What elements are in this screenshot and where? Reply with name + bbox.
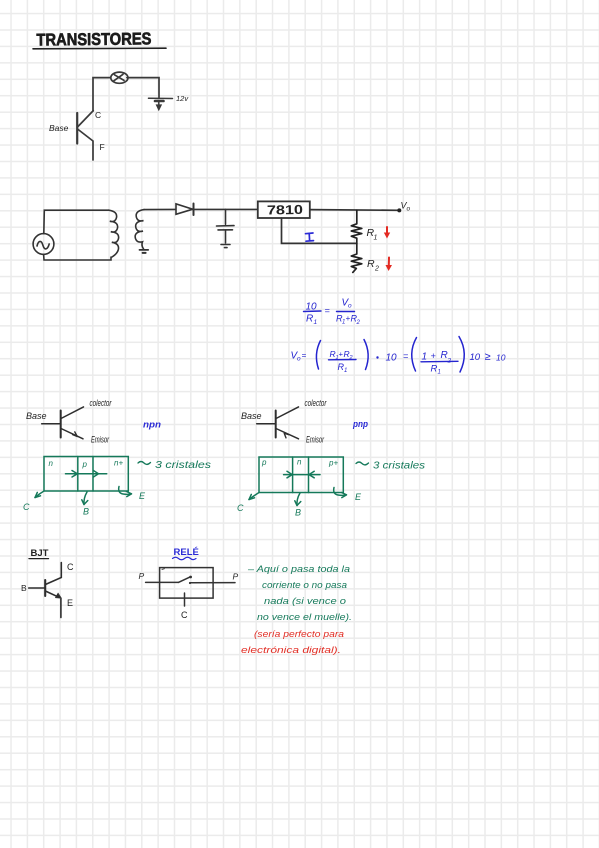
wire secondary to diode	[144, 208, 176, 210]
arrow B npn	[82, 492, 88, 505]
transformer primary coil	[109, 210, 119, 257]
svg-text:P: P	[139, 571, 145, 581]
svg-text:p: p	[82, 460, 88, 469]
current arrow red R1	[384, 227, 390, 239]
labels n p n+	[49, 459, 124, 470]
relay switch arm	[178, 576, 192, 585]
arrow C npn	[35, 491, 44, 498]
svg-text:1: 1	[344, 368, 347, 374]
svg-text:E: E	[139, 491, 146, 501]
svg-text:12v: 12v	[176, 94, 189, 103]
svg-text:BJT: BJT	[31, 548, 49, 559]
svg-text:1: 1	[438, 370, 441, 376]
svg-text:E: E	[67, 598, 73, 608]
svg-text:C: C	[181, 610, 188, 620]
resistor R1	[351, 210, 362, 243]
svg-text:electrónica digital).: electrónica digital).	[241, 645, 341, 656]
svg-text:TRANSISTORES: TRANSISTORES	[36, 29, 151, 49]
wire collector to lamp	[93, 78, 111, 111]
arrow C pnp	[249, 493, 259, 500]
diode D1	[176, 204, 194, 216]
transistor Q1	[77, 111, 93, 160]
svg-text:=: =	[325, 306, 330, 316]
arrow E pnp	[334, 488, 347, 498]
svg-text:≥: ≥	[485, 351, 491, 363]
ground secondary	[140, 250, 149, 253]
capacitor C1	[217, 209, 235, 243]
wire primary loop	[44, 210, 111, 260]
wire regulator to Vo	[310, 209, 399, 212]
svg-text:1: 1	[422, 352, 428, 363]
svg-text:3 cristales: 3 cristales	[155, 460, 211, 471]
svg-text:o: o	[348, 303, 352, 310]
svg-text:=: =	[302, 351, 307, 360]
svg-text:Base: Base	[26, 411, 47, 421]
svg-text:n: n	[49, 459, 54, 468]
wire regulator ground to divider	[282, 218, 357, 243]
AC source	[33, 234, 54, 255]
svg-text:– Aquí o pasa toda la: – Aquí o pasa toda la	[247, 564, 350, 575]
svg-text:n+: n+	[114, 459, 123, 468]
svg-text:colector: colector	[305, 398, 328, 408]
svg-text:Emisor: Emisor	[306, 435, 325, 445]
svg-text:F: F	[100, 142, 105, 152]
labels p n p+	[261, 458, 338, 468]
svg-text:=: =	[403, 351, 408, 361]
svg-text:C: C	[95, 110, 101, 120]
note 3 cristales npn	[138, 460, 211, 471]
svg-text:2: 2	[356, 320, 361, 326]
svg-text:Base: Base	[241, 411, 262, 421]
svg-text:10: 10	[496, 353, 506, 363]
svg-text:C: C	[23, 502, 30, 512]
svg-text:R: R	[431, 364, 438, 375]
wire P right	[191, 582, 236, 584]
svg-text:RELÉ: RELÉ	[174, 547, 199, 558]
current arrow red R2	[386, 258, 393, 272]
svg-text:npn: npn	[143, 420, 162, 430]
svg-text:E: E	[355, 492, 362, 502]
svg-text:p: p	[261, 458, 267, 467]
lamp	[111, 72, 128, 83]
formula 10/R1 = Vo/(R1+R2)	[304, 298, 361, 327]
svg-text:o: o	[407, 206, 411, 213]
svg-text:C: C	[67, 562, 74, 572]
svg-text:no vence el muelle).: no vence el muelle).	[257, 612, 352, 623]
wire diode to regulator	[194, 208, 258, 210]
wire P left	[146, 581, 179, 583]
svg-text:1: 1	[314, 319, 318, 326]
svg-text:10: 10	[470, 352, 481, 363]
label R1	[367, 227, 378, 242]
svg-text:P: P	[233, 572, 239, 582]
formula Vo = ((R1+R2)/R1)*10 = (1+R2/R1)10 >= 10	[291, 337, 506, 376]
transistor BJT	[29, 563, 62, 618]
transformer secondary coil	[135, 210, 144, 249]
label RELE blue	[173, 547, 199, 560]
node Vo dot	[397, 208, 401, 212]
svg-text:colector: colector	[90, 398, 113, 408]
svg-text:B: B	[21, 583, 27, 593]
svg-text:(sería perfecto para: (sería perfecto para	[254, 629, 344, 640]
svg-text:o: o	[297, 356, 301, 363]
arrow E npn	[119, 487, 132, 497]
svg-text:nada (si vence o: nada (si vence o	[264, 596, 346, 607]
svg-text:R: R	[306, 314, 313, 325]
crystal diagram pnp	[259, 457, 343, 493]
label I blue	[306, 233, 314, 241]
label BJT	[29, 548, 49, 559]
regulator 7810	[258, 201, 310, 218]
svg-text:pnp: pnp	[352, 419, 368, 429]
green note line 1	[247, 564, 350, 575]
svg-text:+: +	[431, 351, 436, 361]
pnp transistor symbol	[257, 407, 299, 439]
npn transistor symbol	[42, 407, 84, 439]
wire lamp to battery	[127, 78, 159, 98]
svg-text:B: B	[83, 507, 89, 517]
svg-text:p+: p+	[328, 459, 338, 468]
svg-text:10: 10	[386, 353, 398, 364]
label Vo	[401, 201, 411, 213]
svg-text:n: n	[297, 458, 302, 467]
wire C bottom	[184, 593, 186, 606]
svg-text:7810: 7810	[267, 202, 303, 218]
title TRANSISTORES	[33, 29, 166, 49]
relay box	[160, 568, 214, 599]
svg-text:Emisor: Emisor	[91, 435, 110, 445]
svg-text:B: B	[295, 508, 301, 518]
svg-text:1: 1	[374, 235, 378, 242]
resistor R2	[351, 243, 362, 272]
svg-text:3 cristales: 3 cristales	[373, 461, 425, 472]
svg-text:R: R	[367, 258, 375, 270]
svg-text:corriente o no pasa: corriente o no pasa	[262, 580, 347, 591]
note 3 cristales pnp	[356, 461, 425, 472]
svg-text:Base: Base	[49, 123, 69, 133]
battery 12v	[149, 98, 173, 110]
label R2	[367, 258, 379, 273]
crystal diagram npn	[44, 457, 128, 492]
svg-text:2: 2	[374, 266, 379, 273]
arrow B pnp	[295, 493, 301, 506]
svg-text:C: C	[237, 503, 244, 513]
ground capacitor	[221, 245, 230, 248]
